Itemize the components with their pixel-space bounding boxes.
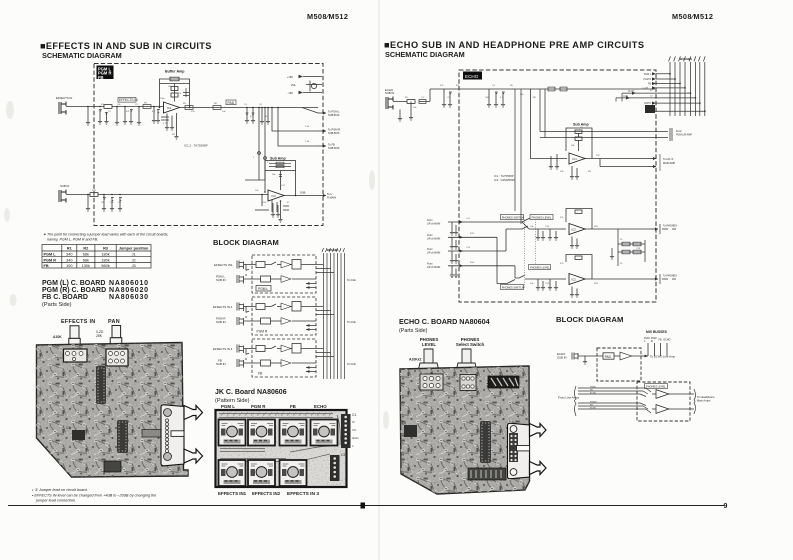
svg-text:25K: 25K bbox=[96, 334, 103, 338]
svg-text:IC2: IC2 bbox=[572, 228, 577, 232]
svg-text:180k: 180k bbox=[101, 253, 109, 257]
svg-text:SUB: SUB bbox=[300, 191, 306, 195]
svg-text:PGM L: PGM L bbox=[221, 404, 235, 409]
svg-text:PHONES LEVEL: PHONES LEVEL bbox=[646, 385, 666, 389]
svg-text:From Line Amps: From Line Amps bbox=[558, 396, 580, 400]
svg-text:SUB IN: SUB IN bbox=[216, 362, 226, 366]
svg-text:NA806030: NA806030 bbox=[109, 294, 149, 301]
svg-text:J3: J3 bbox=[132, 264, 136, 268]
svg-text:C1: C1 bbox=[352, 413, 356, 417]
svg-text:(Parts Side): (Parts Side) bbox=[42, 302, 72, 308]
svg-text:PGM R: PGM R bbox=[643, 79, 651, 81]
svg-text:To CUE: To CUE bbox=[347, 279, 356, 282]
svg-text:Jumper position: Jumper position bbox=[119, 247, 149, 251]
svg-text:J: J bbox=[253, 157, 254, 159]
svg-text:PHONES SWITCH: PHONES SWITCH bbox=[502, 285, 524, 289]
svg-text:PGM R: PGM R bbox=[590, 401, 597, 403]
svg-text:To PHONES: To PHONES bbox=[663, 275, 677, 278]
svg-text:J: J bbox=[267, 162, 268, 164]
svg-text:• EFFECTS IN level can be chan: • EFFECTS IN level can be changed from +… bbox=[32, 494, 156, 498]
svg-text:Buffer Amp: Buffer Amp bbox=[165, 70, 185, 74]
svg-text:PGM L⁄R AMP: PGM L⁄R AMP bbox=[676, 134, 692, 137]
svg-text:IC2: IC2 bbox=[572, 278, 577, 282]
svg-text:L⁄R ch MAIN: L⁄R ch MAIN bbox=[427, 222, 441, 225]
svg-text:FB: FB bbox=[98, 75, 104, 80]
svg-text:FB: FB bbox=[290, 404, 296, 409]
svg-text:L⁄R ch MAIN: L⁄R ch MAIN bbox=[427, 237, 441, 240]
svg-text:NA806010: NA806010 bbox=[109, 280, 149, 287]
svg-text:IC2 : NJM4556D: IC2 : NJM4556D bbox=[494, 178, 515, 182]
svg-text:IC1: IC1 bbox=[573, 157, 578, 161]
svg-text:SUB BUS: SUB BUS bbox=[328, 113, 340, 117]
svg-text:C3: C3 bbox=[66, 426, 70, 430]
svg-text:SUB BUS: SUB BUS bbox=[328, 131, 340, 135]
svg-text:C2: C2 bbox=[341, 453, 345, 457]
svg-text:L⁄R ch MAIN: L⁄R ch MAIN bbox=[427, 251, 441, 254]
svg-text:ECHO: ECHO bbox=[664, 339, 671, 342]
svg-text:EFFECTS IN 3: EFFECTS IN 3 bbox=[287, 491, 319, 497]
svg-text:SCHEMATIC DIAGRAM: SCHEMATIC DIAGRAM bbox=[385, 50, 465, 59]
svg-text:M508⁄M512: M508⁄M512 bbox=[307, 12, 348, 21]
svg-text:EFFECTS IN 2: EFFECTS IN 2 bbox=[213, 305, 233, 309]
svg-text:■EFFECTS IN AND SUB IN CIRCUIT: ■EFFECTS IN AND SUB IN CIRCUITS bbox=[40, 41, 212, 51]
svg-text:R MAIN: R MAIN bbox=[327, 195, 336, 199]
svg-text:To L⁄: To L⁄ bbox=[327, 192, 333, 196]
svg-text:PGM R: PGM R bbox=[251, 404, 266, 409]
svg-text:SUB IN: SUB IN bbox=[385, 91, 394, 95]
svg-text:PGM R: PGM R bbox=[44, 258, 57, 262]
svg-text:Sub Amp: Sub Amp bbox=[270, 157, 286, 161]
svg-text:LEVEL: LEVEL bbox=[422, 342, 436, 347]
svg-text:180k: 180k bbox=[101, 258, 109, 262]
svg-text:jumper lead connection.: jumper lead connection. bbox=[35, 499, 76, 503]
svg-text:EFFECTS IN2: EFFECTS IN2 bbox=[252, 491, 281, 496]
svg-text:MIX BUSSES: MIX BUSSES bbox=[646, 330, 668, 334]
svg-text:namey, PGM L, PGM R and FB.: namey, PGM L, PGM R and FB. bbox=[47, 238, 98, 242]
svg-text:(Parts Side): (Parts Side) bbox=[399, 328, 428, 334]
svg-text:-15V: -15V bbox=[288, 91, 294, 95]
svg-text:R: R bbox=[651, 340, 653, 343]
svg-text:CUE: CUE bbox=[623, 96, 628, 98]
svg-text:ECH: ECH bbox=[353, 436, 359, 440]
svg-text:M508⁄M512: M508⁄M512 bbox=[672, 12, 713, 21]
svg-text:560k: 560k bbox=[101, 264, 109, 268]
svg-text:EFFECTS IN1: EFFECTS IN1 bbox=[214, 263, 233, 267]
svg-text:J1: J1 bbox=[132, 253, 136, 257]
svg-text:JK C. Board NA80606: JK C. Board NA80606 bbox=[215, 389, 287, 396]
svg-text:PHONES LEVEL: PHONES LEVEL bbox=[530, 265, 550, 269]
svg-text:ECHO: ECHO bbox=[644, 103, 651, 105]
svg-text:R·CH: R·CH bbox=[628, 91, 634, 93]
svg-text:FB: FB bbox=[44, 264, 49, 268]
svg-text:PAD: PAD bbox=[605, 355, 612, 359]
svg-text:EFFECTS IN: EFFECTS IN bbox=[56, 96, 72, 100]
svg-text:PGM R: PGM R bbox=[257, 329, 268, 333]
svg-text:FB: FB bbox=[648, 84, 651, 86]
svg-text:ECHO: ECHO bbox=[590, 392, 596, 394]
svg-text:9: 9 bbox=[724, 503, 728, 510]
svg-text:BLOCK DIAGRAM: BLOCK DIAGRAM bbox=[213, 238, 279, 247]
svg-text:68k: 68k bbox=[83, 253, 89, 257]
svg-text:R2: R2 bbox=[83, 247, 88, 251]
svg-text:FB C. BOARD: FB C. BOARD bbox=[42, 294, 88, 301]
svg-text:A10Kx2: A10Kx2 bbox=[409, 358, 422, 362]
svg-text:PHONES LEVEL: PHONES LEVEL bbox=[532, 215, 552, 219]
svg-text:130k: 130k bbox=[82, 264, 90, 268]
svg-text:A10K: A10K bbox=[53, 335, 62, 339]
svg-text:SCHEMATIC DIAGRAM: SCHEMATIC DIAGRAM bbox=[42, 51, 122, 60]
svg-text:ECHO C. BOARD NA80604: ECHO C. BOARD NA80604 bbox=[399, 317, 490, 326]
svg-text:R: R bbox=[353, 420, 355, 424]
svg-text:VOL: VOL bbox=[291, 83, 297, 87]
svg-text:PAD: PAD bbox=[228, 101, 235, 105]
svg-text:ECHO: ECHO bbox=[590, 407, 596, 409]
svg-text:J2: J2 bbox=[132, 258, 136, 262]
svg-text:PGM L: PGM L bbox=[644, 74, 652, 76]
svg-text:PAN: PAN bbox=[108, 319, 120, 325]
svg-text:∗ The point for connecting a j: ∗ The point for connecting a jumper lead… bbox=[43, 233, 168, 237]
svg-text:L⁄R ch MAIN: L⁄R ch MAIN bbox=[427, 266, 441, 269]
svg-text:R3: R3 bbox=[103, 247, 108, 251]
svg-text:To ECHO Line Amp: To ECHO Line Amp bbox=[650, 355, 675, 359]
svg-text:100: 100 bbox=[66, 264, 72, 268]
svg-text:FC: FC bbox=[353, 428, 357, 432]
svg-text:340: 340 bbox=[66, 253, 72, 257]
svg-text:PGM L: PGM L bbox=[258, 287, 268, 291]
svg-text:SUB IN: SUB IN bbox=[60, 184, 69, 188]
svg-text:EFFECTS IN: EFFECTS IN bbox=[61, 319, 95, 325]
svg-text:68k: 68k bbox=[83, 258, 89, 262]
svg-text:To Headphone: To Headphone bbox=[697, 395, 715, 399]
svg-text:SUB IN: SUB IN bbox=[216, 320, 226, 324]
svg-text:• ① Jumper lead on circuit boa: • ① Jumper lead on circuit board. bbox=[32, 488, 88, 492]
svg-text:IC2: IC2 bbox=[272, 194, 277, 198]
svg-text:SUB BUS: SUB BUS bbox=[328, 146, 340, 150]
svg-text:Main Amps: Main Amps bbox=[697, 399, 711, 403]
svg-text:Select Switch: Select Switch bbox=[456, 342, 485, 347]
svg-text:ECHO: ECHO bbox=[465, 74, 479, 79]
svg-text:EFFECTS IN1: EFFECTS IN1 bbox=[218, 491, 247, 496]
svg-text:To PHONES: To PHONES bbox=[663, 225, 677, 228]
svg-text:L·CH: L·CH bbox=[643, 88, 649, 90]
svg-text:IC1: IC1 bbox=[167, 106, 172, 110]
svg-text:NA806020: NA806020 bbox=[109, 287, 149, 294]
svg-text:C8: C8 bbox=[402, 421, 406, 425]
svg-text:PGM L: PGM L bbox=[590, 386, 597, 388]
svg-text:■ECHO SUB IN AND HEADPHONE PRE: ■ECHO SUB IN AND HEADPHONE PRE AMP CIRCU… bbox=[384, 40, 645, 50]
svg-text:PGM L: PGM L bbox=[44, 253, 57, 257]
svg-text:R1: R1 bbox=[67, 247, 72, 251]
svg-text:SUB IN: SUB IN bbox=[216, 278, 226, 282]
svg-text:PGM (R) C. BOARD: PGM (R) C. BOARD bbox=[42, 287, 106, 294]
svg-text:340: 340 bbox=[66, 258, 72, 262]
svg-text:Sub Amp: Sub Amp bbox=[573, 123, 589, 127]
svg-text:To L⁄R ch: To L⁄R ch bbox=[663, 158, 674, 161]
svg-text:EFFECTS IN 3: EFFECTS IN 3 bbox=[213, 347, 233, 351]
svg-text:PHONES SWITCH: PHONES SWITCH bbox=[502, 215, 524, 219]
svg-text:EFFECTS IN: EFFECTS IN bbox=[119, 98, 138, 102]
svg-text:SUB IN: SUB IN bbox=[557, 356, 567, 360]
svg-text:MAIN AMP: MAIN AMP bbox=[663, 162, 676, 165]
svg-text:IC1,2 : TA75558P: IC1,2 : TA75558P bbox=[184, 144, 208, 148]
svg-text:+15V: +15V bbox=[287, 75, 293, 79]
svg-text:FB: FB bbox=[659, 339, 662, 342]
svg-text:BLOCK DIAGRAM: BLOCK DIAGRAM bbox=[556, 315, 624, 324]
svg-text:ECHO: ECHO bbox=[314, 404, 327, 409]
svg-text:PGM (L) C. BOARD: PGM (L) C. BOARD bbox=[42, 280, 105, 287]
